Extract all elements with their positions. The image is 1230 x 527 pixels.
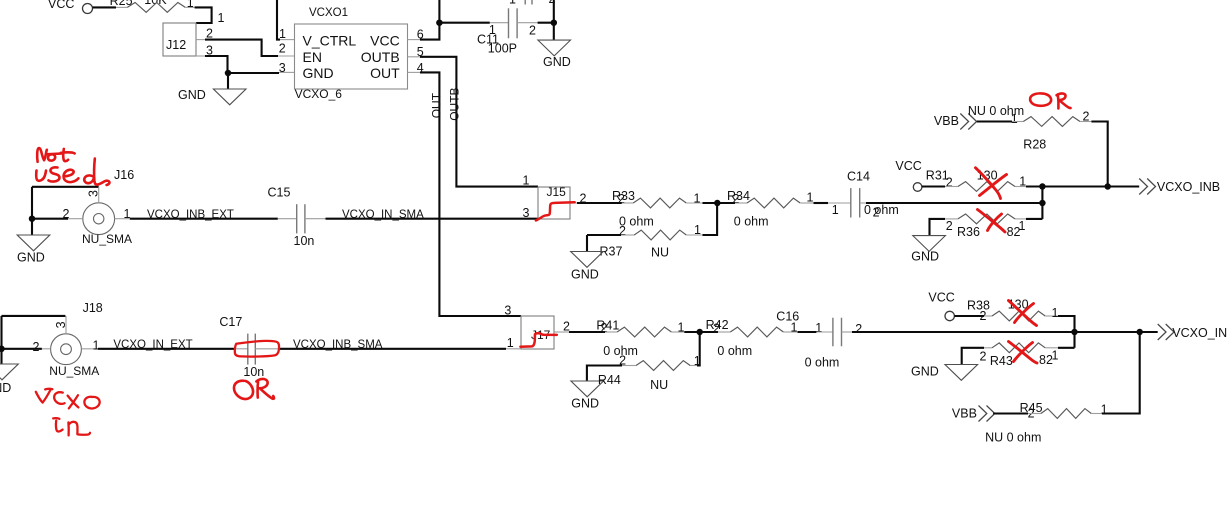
svg-text:3: 3 (54, 321, 68, 328)
svg-text:1: 1 (1052, 349, 1059, 363)
wire C16 pin2 stub (pin stub) (842, 331, 853, 333)
wire J17 pin2 to R41 (569, 331, 605, 333)
svg-text:VBB: VBB (934, 114, 959, 128)
wire R37 pin2 wire (587, 234, 621, 236)
junction node R33/R34/R37 (714, 200, 721, 207)
wire C11 pin1 stub (pin stub) (490, 22, 509, 24)
capacitor body C16 (833, 318, 842, 347)
svg-text:C16: C16 (776, 310, 799, 324)
wire J15 pin2 to R33 (577, 202, 622, 204)
ground symbol GND (R43) (945, 365, 978, 381)
red annotation: handwriting "O" of OR (C17) (234, 381, 253, 399)
wire R28 pin2 down to output net (1091, 122, 1107, 187)
capacitor body partial cap at top edge (cut off) (525, 0, 532, 5)
red annotation: handwriting "s" of used (49, 167, 60, 181)
wire net VCXO_INB_EXT J16 to C15 (130, 218, 278, 220)
wire net to VCXO_IN port (852, 331, 1158, 333)
wire C14 pin2 stub (pin stub) (860, 202, 866, 204)
svg-text:2: 2 (601, 321, 608, 335)
red annotation: handwriting "o" of Not (48, 154, 55, 160)
red annotation: red box around C17 (235, 341, 279, 357)
svg-text:GND: GND (178, 88, 206, 102)
wire R33 left lead (pin stub) (622, 202, 633, 204)
svg-text:VCXO_6: VCXO_6 (295, 87, 343, 101)
wire C16 pin1 stub (pin stub) (816, 331, 833, 333)
red annotation: handwriting "N" of Not (37, 148, 47, 162)
svg-text:2: 2 (619, 224, 626, 238)
ground symbol GND (C11) (538, 40, 571, 56)
svg-text:NU: NU (650, 378, 668, 392)
svg-text:GND: GND (911, 250, 939, 264)
wire VCC node up off page (438, 0, 440, 23)
svg-text:R44: R44 (598, 373, 621, 387)
wire R43 pin1 to vertical tie (1058, 347, 1075, 349)
wire V_CTRL net from top edge (277, 0, 280, 40)
red annotation: handwriting "R" of OR (C17) (256, 379, 274, 399)
svg-text:2: 2 (873, 206, 880, 220)
wire net VCXO_IN_EXT J18 to C17 (98, 348, 234, 350)
junction node R28/VCXO_INB (1104, 183, 1111, 190)
wire R44 left lead (pin stub) (622, 365, 636, 367)
junction node C14/R31/R36 (1039, 200, 1046, 207)
svg-text:1: 1 (124, 207, 131, 221)
svg-text:2: 2 (33, 340, 40, 354)
wire R31 left lead (pin stub) (945, 186, 958, 188)
svg-text:1: 1 (807, 191, 814, 205)
wire R44 right lead (pin stub) (690, 365, 697, 367)
resistor body R34 (747, 198, 800, 208)
svg-text:OUTB: OUTB (361, 49, 400, 65)
op-amp/IC block VCXO1 (295, 24, 408, 89)
connector J16 NU_SMA body (83, 203, 115, 235)
svg-text:1: 1 (187, 0, 194, 10)
wire J17 pin1 stub (pin stub) (506, 348, 521, 350)
svg-text:C15: C15 (268, 185, 291, 199)
junction junction J16 pin2/ground rail (29, 215, 36, 222)
wire C15 pin1 stub (pin stub) (278, 218, 297, 220)
svg-text:C17: C17 (219, 315, 242, 329)
ground symbol GND (J12) (213, 89, 246, 105)
svg-text:R38: R38 (967, 299, 990, 313)
red annotation: X cross-out over R31 130 (976, 168, 1007, 199)
wire R25 right lead (pin stub) (185, 6, 194, 8)
wire R38 pin1 down to main net (1058, 316, 1075, 348)
svg-text:1: 1 (1052, 306, 1059, 320)
svg-text:J18: J18 (83, 301, 103, 315)
svg-text:1: 1 (279, 27, 286, 41)
svg-text:2: 2 (549, 0, 556, 6)
svg-text:J15: J15 (547, 185, 567, 199)
red annotation: handwriting "O" of OR (R28) (1030, 93, 1051, 105)
svg-text:VCC: VCC (370, 32, 400, 48)
connector box J17 (521, 316, 554, 349)
red annotation: squiggle jumper across J15 (536, 202, 575, 220)
wire R38 right lead (pin stub) (1045, 315, 1058, 317)
svg-text:R28: R28 (1023, 138, 1046, 152)
red annotation: X cross-out over R38 130 (1009, 301, 1037, 326)
wire J18 pin3 stub (pin stub) (65, 316, 67, 334)
svg-text:V_CTRL: V_CTRL (303, 32, 357, 48)
svg-text:VCC: VCC (895, 159, 921, 173)
VCC terminal circle (R31) (913, 183, 922, 192)
junction VCC node at C11 left (436, 19, 443, 26)
svg-text:2: 2 (946, 175, 953, 189)
net port chevron VBB input port (R45) (979, 406, 995, 422)
wire left rail down to ground (J18) (0, 316, 2, 364)
wire R31 right lead (pin stub) (1015, 186, 1026, 188)
svg-text:2: 2 (63, 207, 70, 221)
svg-text:VCC: VCC (48, 0, 74, 11)
capacitor body C14 (851, 188, 860, 217)
wire R34 left lead (pin stub) (735, 202, 747, 204)
red annotation: handwriting "d" of used (84, 159, 96, 185)
wire VCXO1 EN pin stub (pin stub) (278, 55, 295, 57)
svg-text:VCXO_INB_EXT: VCXO_INB_EXT (147, 209, 234, 221)
red annotation: handwriting "n" of in (68, 422, 90, 436)
svg-text:2: 2 (946, 219, 953, 233)
wire VCC to R38 (954, 315, 984, 317)
svg-text:1: 1 (832, 203, 839, 217)
connector J18 NU_SMA body (51, 334, 82, 365)
svg-text:1: 1 (678, 321, 685, 335)
wire J15 pin2 stub (pin stub) (570, 202, 577, 204)
wire R28 right lead (pin stub) (1080, 121, 1091, 123)
wire VCXO1 OUT pin stub (pin stub) (408, 71, 421, 73)
svg-text:2: 2 (529, 24, 536, 38)
ground symbol GND (J16) (17, 235, 50, 251)
svg-text:2: 2 (733, 192, 740, 206)
wire GND node down to ground (227, 73, 229, 89)
svg-text:NU 0 ohm: NU 0 ohm (985, 431, 1041, 445)
resistor body R25 (127, 3, 185, 13)
svg-text:VCXO_IN_EXT: VCXO_IN_EXT (113, 339, 192, 351)
wire R37 pin1 up to node (703, 203, 718, 235)
wire left rail down to ground (J16) (31, 187, 33, 235)
svg-text:EN: EN (303, 49, 322, 65)
resistor body R36 (958, 214, 1015, 224)
capacitor body C15 (297, 204, 305, 233)
wire J16 pin3 over to left rail (32, 186, 99, 188)
wire VCXO1 OUTB pin stub (pin stub) (408, 56, 421, 58)
wire R41 right lead (pin stub) (671, 331, 684, 333)
junction node R41/R42/R44 (696, 329, 703, 336)
wire VCC node to C11 (439, 22, 489, 24)
svg-text:2: 2 (713, 322, 720, 336)
svg-text:VCXO_INB_SMA: VCXO_INB_SMA (293, 339, 383, 351)
svg-text:2: 2 (206, 27, 213, 41)
wire R31 pin1 to VCXO_INB port (1026, 185, 1139, 187)
resistor body R42 (730, 327, 783, 337)
wire R41 pin1 to R42 pin2 (684, 331, 718, 333)
wire node down to R44 pin1 (697, 332, 700, 366)
wire J12 pin3 stub (pin stub) (196, 55, 205, 57)
svg-text:2: 2 (855, 322, 862, 336)
wire VCC circle to R25 (93, 6, 117, 8)
svg-text:3: 3 (279, 61, 286, 75)
svg-text:VCXO_IN_SMA: VCXO_IN_SMA (342, 209, 424, 221)
svg-text:GND: GND (543, 55, 571, 69)
wire J18 pin3 over to left rail (2, 315, 66, 317)
net port chevron VCXO_INB output port (1139, 179, 1155, 195)
wire J16 pin1 stub (pin stub) (115, 218, 130, 220)
svg-text:3: 3 (504, 303, 511, 317)
wire R25 left lead (pin stub) (116, 6, 127, 8)
svg-text:3: 3 (87, 190, 101, 197)
svg-text:10n: 10n (243, 365, 264, 379)
svg-text:NU_SMA: NU_SMA (82, 232, 132, 246)
wire net OUTB from pin5 down to J15 pin1 (420, 57, 538, 187)
resistor body R45 (1041, 409, 1091, 419)
VCC terminal circle (R38) (945, 311, 954, 320)
wire C15 pin2 stub (pin stub) (305, 218, 326, 220)
svg-text:0 ohm: 0 ohm (805, 356, 840, 370)
svg-text:1: 1 (523, 173, 530, 187)
wire R37 pin2 down to ground (586, 235, 588, 252)
junction junction J18 pin2/ground rail (0, 346, 5, 353)
wire R44 pin2 down to ground (587, 366, 622, 382)
wire R36 right lead (pin stub) (1015, 218, 1026, 220)
wire J12 pin3 down to GND node (205, 56, 228, 73)
ground symbol GND (R44) (571, 381, 604, 397)
red annotation: handwriting "e" of used (64, 170, 79, 182)
svg-text:1: 1 (1019, 219, 1026, 233)
wire R42 right lead (pin stub) (783, 331, 797, 333)
wire R42 pin1 to C16 (798, 331, 817, 333)
wire R43 left lead (pin stub) (984, 347, 992, 349)
svg-text:GND: GND (911, 365, 939, 379)
svg-text:10n: 10n (294, 234, 315, 248)
wire J16 pin3 stub (pin stub) (98, 187, 100, 203)
resistor body R44 (636, 361, 690, 371)
svg-text:3: 3 (523, 206, 530, 220)
net port chevron VBB input port (R28) (960, 114, 976, 130)
wire R38 left lead (pin stub) (984, 315, 992, 317)
svg-text:GND: GND (17, 251, 45, 265)
svg-text:1: 1 (1019, 174, 1026, 188)
wire J16 pin2 to rail (32, 218, 68, 220)
connector box J15 (538, 187, 570, 219)
svg-text:GND: GND (303, 65, 334, 81)
junction node R38/R43 tie (1071, 329, 1078, 336)
svg-text:NU_SMA: NU_SMA (49, 364, 99, 378)
capacitor body C17 (248, 334, 256, 365)
svg-text:J16: J16 (114, 168, 134, 182)
svg-text:OUTB: OUTB (448, 87, 462, 120)
red annotation: X cross-out over R36 82 (978, 210, 1006, 233)
red annotation: handwriting "o" of vcxo (84, 397, 99, 409)
wire J12 pin2 stub (pin stub) (196, 39, 205, 41)
svg-text:VCC: VCC (928, 290, 954, 304)
wire J18 pin2 to rail (2, 348, 42, 350)
wire R37 left lead (pin stub) (621, 234, 634, 236)
svg-text:2: 2 (563, 319, 570, 333)
svg-text:VBB: VBB (952, 407, 977, 421)
wire R42 left lead (pin stub) (718, 331, 730, 333)
wire VCXO1 pin6 up to VCC node (420, 23, 439, 40)
wire R33 pin1 to R34 pin2 (703, 202, 736, 204)
wire R28 left lead (pin stub) (1012, 121, 1023, 123)
svg-text:0 ohm: 0 ohm (717, 344, 752, 358)
wire C11 pin2 stub (pin stub) (517, 22, 538, 24)
wire R43 pin2 down to ground (962, 348, 984, 365)
wire GND node to VCXO1 GND pin (228, 72, 279, 74)
wire R33 right lead (pin stub) (686, 202, 702, 204)
resistor body R28 (1023, 117, 1080, 127)
resistor body R31 (958, 182, 1015, 192)
svg-text:GND: GND (571, 397, 599, 411)
svg-text:R43: R43 (990, 354, 1013, 368)
wire C17 pin2 stub (pin stub) (255, 348, 279, 350)
svg-text:VCXO1: VCXO1 (309, 7, 348, 19)
wire vertical through C11-right node to ground (553, 0, 555, 40)
svg-text:J12: J12 (166, 38, 186, 52)
resistor body R43 (992, 343, 1045, 353)
ground symbol GND (R36) (913, 236, 946, 252)
wire J18 pin1 stub (pin stub) (81, 348, 98, 350)
wire J17 pin2 stub (pin stub) (554, 331, 569, 333)
wire VBB to R45 (993, 412, 1028, 414)
junction J12 pin3 / VCXO GND / ground (225, 70, 232, 77)
svg-text:OUT: OUT (370, 65, 400, 81)
red annotation: handwriting "x" of vcxo (68, 395, 79, 408)
red annotation: handwriting "c" of vcxo (54, 392, 64, 404)
wire R34 right lead (pin stub) (800, 202, 813, 204)
svg-text:1: 1 (815, 321, 822, 335)
wire R45 pin1 up to main net (1102, 332, 1140, 414)
red annotation: handwriting "v" of vcxo (36, 389, 53, 403)
svg-text:1: 1 (694, 191, 701, 205)
resistor body R38 (992, 311, 1045, 321)
junction node R45 tie (1136, 329, 1143, 336)
wire R45 left lead (pin stub) (1028, 413, 1041, 415)
svg-text:100P: 100P (488, 42, 517, 56)
junction node at C11 right (551, 19, 558, 26)
svg-text:2: 2 (1083, 109, 1090, 123)
wire C11 to ground node (538, 22, 554, 24)
wire R36 pin2 down to ground (930, 219, 946, 236)
red annotation: handwriting "i" of in (53, 418, 62, 431)
svg-text:0 ohm: 0 ohm (734, 214, 769, 228)
svg-text:1: 1 (93, 339, 100, 353)
wire net OUT from pin4 down to J17 pin3 (420, 72, 521, 316)
wire R43 right lead (pin stub) (1045, 347, 1058, 349)
wire VBB to R28 (977, 120, 1012, 122)
wire R36 pin1 to vertical tie (1026, 218, 1042, 220)
svg-text:2: 2 (618, 192, 625, 206)
svg-text:NU: NU (651, 246, 669, 260)
wire VCXO1 GND pin stub (pin stub) (279, 71, 295, 73)
svg-text:GND: GND (571, 268, 599, 282)
wire R25 pin1 to J12 pin1 (195, 7, 212, 23)
connector box J12 (163, 23, 196, 56)
resistor body R33 (633, 198, 686, 208)
svg-text:VCXO_INB: VCXO_INB (1157, 180, 1220, 194)
wire J18 pin2 stub (pin stub) (42, 348, 51, 350)
svg-text:1: 1 (507, 336, 514, 350)
svg-text:2: 2 (279, 42, 286, 56)
svg-text:R36: R36 (957, 225, 980, 239)
red annotation: handwriting "R" of OR (R28) (1057, 93, 1071, 108)
svg-text:1: 1 (218, 11, 225, 25)
svg-text:1: 1 (509, 0, 516, 6)
wire R45 right lead (pin stub) (1091, 413, 1102, 415)
wire VCXO1 V_CTRL pin stub (pin stub) (280, 39, 295, 41)
capacitor body C11 (509, 8, 518, 38)
svg-text:OUT: OUT (429, 92, 443, 118)
resistor body R41 (617, 327, 671, 337)
svg-text:GND: GND (0, 381, 11, 395)
svg-text:1: 1 (694, 223, 701, 237)
red annotation: X cross-out over R43 82 (1009, 342, 1038, 364)
wire VCXO1 VCC pin stub (pin stub) (408, 39, 421, 41)
wire C14 pin2 to output node (866, 202, 1042, 204)
red annotation: handwriting "u" of used (36, 171, 46, 181)
ground symbol GND (J18, clipped) (0, 364, 18, 380)
svg-text:VCXO_IN: VCXO_IN (1172, 326, 1227, 340)
wire C17 pin1 stub (pin stub) (234, 348, 248, 350)
wire R41 left lead (pin stub) (605, 331, 617, 333)
svg-text:1: 1 (1011, 112, 1018, 126)
red annotation: handwriting flourish after used (97, 181, 109, 185)
svg-text:2: 2 (980, 350, 987, 364)
wire VCC to R31 (922, 185, 945, 187)
wire vertical tie R31/C14/R36 (1041, 187, 1043, 219)
svg-text:C14: C14 (847, 170, 870, 184)
net port chevron VCXO_IN output port (1158, 324, 1174, 340)
wire C14 pin1 stub (pin stub) (828, 202, 851, 204)
wire net VCXO_INB_SMA C17 to J17 pin1 (279, 348, 506, 350)
wire R36 left lead (pin stub) (945, 218, 958, 220)
resistor body R37 (634, 230, 686, 240)
ground symbol GND (R37) (571, 252, 604, 268)
red annotation: squiggle jumper across J17 (520, 333, 556, 346)
red annotation: handwriting "t" of Not (46, 149, 74, 161)
VCC terminal circle (top) (83, 4, 93, 14)
svg-text:0 ohm: 0 ohm (864, 203, 899, 217)
junction node R31 output (1039, 183, 1046, 190)
wire R37 right lead (pin stub) (686, 234, 702, 236)
wire R34 pin1 to C14 (814, 202, 829, 204)
wire J12 pin2 to VCXO1 EN (205, 40, 278, 56)
wire J16 pin2 stub (pin stub) (68, 218, 83, 220)
wire net VCXO_IN_SMA C15 to J15 pin3 (326, 218, 539, 220)
